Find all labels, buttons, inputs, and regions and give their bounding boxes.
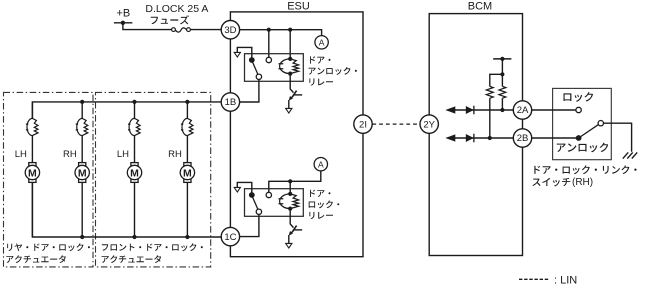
actuator solenoid coil 2 <box>76 118 88 135</box>
diode D2B <box>466 134 474 143</box>
svg-text:ESU: ESU <box>287 1 310 13</box>
wire 1C to lock relay arm contact <box>239 215 259 237</box>
bottom rail 1C bus <box>32 182 222 237</box>
relay coil <box>279 194 299 209</box>
svg-text:BCM: BCM <box>468 1 492 13</box>
wire R2 down to 2A line <box>501 98 503 110</box>
junction dot contact feed <box>267 28 271 32</box>
svg-text:RH: RH <box>63 149 77 160</box>
label fuse (katakana fuyuzu) <box>151 15 189 24</box>
connector pin 1B <box>221 93 239 111</box>
relay coil end dots <box>288 192 292 211</box>
switch common dot <box>576 135 582 141</box>
relay coil end dots <box>288 57 292 76</box>
label door-unlock-relay line1 (doa) <box>310 56 331 63</box>
svg-text:A: A <box>319 37 325 47</box>
junction dot coil feed <box>288 28 292 32</box>
actuator column 2 vertical wires <box>81 102 83 237</box>
svg-text:M: M <box>28 167 37 179</box>
svg-text:LH: LH <box>117 149 129 160</box>
label lock (rokku) <box>564 92 594 102</box>
label rear-door-lock line2 (akuchueta) <box>6 255 66 263</box>
actuator column 4 vertical wires <box>186 102 188 237</box>
motor M3 <box>127 163 141 183</box>
label door-lock-relay line3 (rire-) <box>309 212 333 219</box>
label rear-door-lock line1 (riya doa rokku) <box>7 243 90 251</box>
input arrowhead 2B <box>445 134 455 141</box>
ESU unit box <box>230 12 363 257</box>
junction dot bottom rail col3 <box>132 235 136 239</box>
label door-lock-relay line2 (rokku) <box>309 200 340 208</box>
wire 2A to lock contact <box>532 109 576 111</box>
wire fuse to pin 3D <box>190 29 222 31</box>
wire to unlock relay contact <box>268 30 270 57</box>
relay NC contact <box>256 74 261 79</box>
fuse D.LOCK 25A <box>172 28 191 32</box>
transistor emitter arrowhead <box>289 231 293 236</box>
label front-door-lock line1 (furonto doa rokku) <box>102 243 203 251</box>
driver transistor Q2 <box>289 209 302 244</box>
relay NO contact <box>266 57 271 62</box>
wire supply to resistors <box>490 59 503 87</box>
2B sense line <box>454 137 515 139</box>
junction dot R1/2B <box>488 136 492 140</box>
actuator column 3 vertical wires <box>134 102 136 237</box>
motor M1 <box>25 163 39 183</box>
switch arm <box>579 125 599 138</box>
supply bar dot <box>500 57 504 61</box>
front door lock actuator dash-dot enclosure <box>96 92 211 267</box>
svg-text:RH: RH <box>168 149 182 160</box>
battery terminal +B <box>114 21 132 25</box>
junction dot supply split <box>500 72 504 76</box>
connector pin 2B <box>513 129 531 147</box>
actuator solenoid coil 1 <box>26 118 38 135</box>
switch output contact <box>598 121 603 126</box>
junction dot top rail col4 <box>185 100 189 104</box>
LIN bus dashed wire 2I-2Y <box>372 123 420 125</box>
label door-unlock-relay line3 (rire-) <box>309 79 333 86</box>
svg-text:M: M <box>130 167 139 179</box>
junction dot top rail col2 <box>80 100 84 104</box>
svg-text:2Y: 2Y <box>423 119 435 130</box>
top rail 1B bus <box>32 102 222 119</box>
label door-lock-link-switch line2 (suicchi) <box>532 178 570 187</box>
relay movable arm <box>252 197 258 210</box>
door lock link switch box <box>553 88 612 159</box>
wire switch to ground <box>604 123 632 152</box>
connector pin 3D <box>221 21 239 39</box>
transistor emitter arrowhead <box>289 96 293 101</box>
junction dot R2/2A <box>500 108 504 112</box>
svg-text:2A: 2A <box>517 105 529 116</box>
connector pin 1C <box>221 227 239 245</box>
wire +B to fuse <box>123 23 172 30</box>
svg-text:: LIN: : LIN <box>554 275 577 287</box>
relay common contact <box>249 57 255 63</box>
svg-text:LH: LH <box>15 149 27 160</box>
LIN legend dashed sample <box>519 278 549 280</box>
diode D2A <box>466 106 474 115</box>
driver transistor Q1 <box>289 74 302 109</box>
label unlock (anrokku) <box>557 143 608 153</box>
svg-text:+B: +B <box>117 7 131 19</box>
junction dot top rail col3 <box>132 100 136 104</box>
wire 3D feed rail <box>239 30 322 36</box>
input arrowhead 2A <box>445 106 455 113</box>
svg-text:1C: 1C <box>224 232 236 243</box>
wire 1B to unlock relay arm contact <box>239 80 259 102</box>
door lock relay box <box>245 189 304 217</box>
wire A to lock relay feed <box>269 171 321 192</box>
label door-unlock-relay line2 (anrokku) <box>309 67 357 75</box>
svg-text:(RH): (RH) <box>572 177 593 188</box>
wire feed to lock relay coil <box>289 181 291 194</box>
chassis ground symbol <box>623 152 637 158</box>
motor M2 <box>75 163 89 183</box>
relay common contact lead with arrow <box>237 47 252 59</box>
BCM unit box <box>429 14 522 256</box>
wire 2B to unlock common <box>532 137 579 139</box>
relay common contact <box>249 192 255 198</box>
rear door lock actuator dash-dot enclosure <box>4 92 94 267</box>
door unlock relay box <box>245 54 304 82</box>
junction dot bottom rail col2 <box>80 235 84 239</box>
wire R1 down to 2B line <box>489 98 491 138</box>
relay common contact lead with arrow <box>237 182 252 194</box>
junction dot bottom rail col4 <box>185 235 189 239</box>
label door-lock-relay line1 (doa) <box>310 190 331 197</box>
svg-text:1B: 1B <box>225 97 237 108</box>
actuator column 1 vertical wires <box>31 102 33 237</box>
wire to unlock relay coil <box>289 30 291 59</box>
pull-up resistor R1 (to 2B line) <box>486 86 493 98</box>
connector pin 2Y <box>420 115 438 133</box>
svg-text:D.LOCK 25 A: D.LOCK 25 A <box>145 3 208 15</box>
label door-lock-link-switch line1 <box>534 165 636 174</box>
test point A top <box>315 36 328 49</box>
relay NO contact <box>266 192 271 197</box>
connector pin 2A <box>513 101 531 119</box>
2A sense line <box>454 109 515 111</box>
label front-door-lock line2 (akuchueta) <box>102 255 162 263</box>
actuator solenoid coil 4 <box>181 118 193 135</box>
svg-text:M: M <box>183 167 192 179</box>
connector pin 2I <box>354 115 372 133</box>
ground arrow below transistor <box>286 108 292 113</box>
switch lock contact <box>576 107 581 112</box>
internal supply bar <box>493 58 511 60</box>
motor M4 <box>180 163 194 183</box>
pull-up resistor R2 (to 2A line) <box>499 86 506 98</box>
junction dot lock relay coil feed <box>288 179 292 183</box>
test point A bottom <box>314 158 327 171</box>
svg-text:2B: 2B <box>517 133 529 144</box>
svg-text:A: A <box>318 159 324 169</box>
svg-text:M: M <box>78 167 87 179</box>
ground arrow below transistor <box>286 243 292 248</box>
actuator solenoid coil 3 <box>128 118 140 135</box>
svg-text:2I: 2I <box>359 119 367 130</box>
relay NC contact <box>256 209 261 214</box>
svg-text:3D: 3D <box>224 25 236 36</box>
relay movable arm <box>252 62 258 75</box>
relay coil <box>279 59 299 74</box>
